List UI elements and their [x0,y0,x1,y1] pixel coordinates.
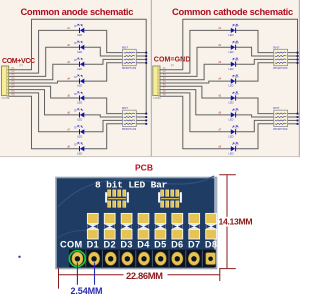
PCB board edge highlight right [214,178,217,268]
wire D2 to RN1 [84,47,122,56]
wire pin7 to D6 [160,90,231,115]
dimension 2.54MM right line [94,263,96,285]
svg-text:14.13MM: 14.13MM [219,217,253,227]
svg-text:LED: LED [77,151,82,155]
wire pin2 to D1 [9,30,80,73]
wire RN1 output 4 [288,62,298,64]
svg-text:COM: COM [60,239,83,249]
svg-text:D?: D? [74,92,78,96]
wire pin5 to D4 [160,81,231,83]
wire D8 to RN2 [84,124,122,149]
schematic area bottom border [0,156,300,158]
svg-text:LED: LED [229,101,234,105]
wire pin8 to D7 [160,93,231,132]
LED pad column D3 [121,213,132,239]
wire RN2 output 1 [288,113,298,115]
svg-text:D5: D5 [154,239,166,249]
LED pad column D1 [87,213,98,239]
LED D6 [231,109,238,118]
hole cell separator [185,250,187,266]
svg-text:D?: D? [235,75,239,79]
wire D3 to RN1 [235,59,273,64]
svg-text:2.54MM: 2.54MM [71,286,103,296]
svg-text:COM=GND: COM=GND [154,57,191,64]
svg-text:RN?: RN? [273,45,279,49]
svg-text:LED: LED [229,134,234,138]
PCB board body [56,178,217,269]
wire D8 to RN2 [235,124,273,149]
svg-text:8P4R?103: 8P4R?103 [273,66,288,70]
svg-text:LED: LED [229,50,234,54]
svg-text:LED: LED [229,33,234,37]
svg-text:P?: P? [20,64,24,68]
LED pad column D6 [172,213,183,239]
wire pin9 to D8 [9,96,80,149]
right edge border [298,0,300,156]
wire D6 to RN2 [84,115,122,117]
svg-text:D?: D? [235,92,239,96]
svg-text:D3: D3 [120,239,132,249]
LED D5 [78,92,85,101]
wire pin7 to D6 [9,90,80,115]
wire pin8 to D7 [9,93,80,132]
COM hole green marker circle [69,251,85,267]
LED D2 [231,41,238,50]
svg-text:D?: D? [74,41,78,45]
svg-text:D6: D6 [171,239,183,249]
resistor network RN2 [123,110,137,126]
through hole D7 [188,252,199,265]
svg-text:D2: D2 [103,239,115,249]
through hole D1 [88,252,99,265]
wire RN1 output 1 [288,52,298,54]
LED pad column D7 [189,213,200,239]
wire D6 to RN2 [235,115,273,117]
wire pin3 to D2 [160,47,231,76]
hole cell separator [118,250,120,266]
wire D4 to RN1 [84,63,122,81]
wire RN1 output 2 [288,55,298,57]
svg-text:CON9: CON9 [153,96,161,100]
svg-text:D?: D? [74,75,78,79]
wire RN2 output 3 [136,119,146,121]
svg-text:8P4R?103: 8P4R?103 [122,66,137,70]
wire D7 to RN2 [235,120,273,131]
wire D7 to RN2 [84,120,122,131]
LED D3 [78,58,85,67]
svg-text:22.86MM: 22.86MM [126,270,163,281]
wire RN2 output 3 [288,119,298,121]
through hole D6 [172,252,183,265]
LED pad column D5 [155,213,166,239]
wire D5 to RN2 [235,98,273,114]
wire D2 to RN1 [235,47,273,56]
svg-text:8P4R?103: 8P4R?103 [122,127,137,131]
svg-text:LED: LED [77,33,82,37]
wire pin5 to D4 [9,81,80,83]
dimension 22.86MM left tick [58,268,60,288]
wire pin9 to D8 [160,96,231,149]
hole cell separator [101,250,103,266]
IC footprint at x=117.0 [105,190,129,207]
dimension 22.86MM right tick [219,268,221,281]
svg-text:D?: D? [74,143,78,147]
svg-text:D?: D? [74,58,78,62]
LED D2 [78,41,85,50]
wire D1 to RN1 [84,30,122,52]
LED D3 [231,58,238,67]
LED pad column D2 [104,213,115,239]
svg-text:D8: D8 [205,239,217,249]
wire D1 to RN1 [235,30,273,52]
svg-text:D4: D4 [137,239,150,249]
svg-text:LED: LED [77,101,82,105]
through hole D2 [105,252,116,265]
svg-text:RN?: RN? [273,106,279,110]
wire pin6 to D5 [160,86,231,98]
LED D5 [231,92,238,101]
svg-text:D?: D? [235,24,239,28]
svg-text:LED: LED [229,151,234,155]
svg-text:LED: LED [229,84,234,88]
wire pin3 to D2 [9,47,80,76]
svg-text:RN?: RN? [122,45,128,49]
schematic area background [0,0,300,156]
svg-text:D?: D? [235,126,239,130]
LED D7 [78,125,85,134]
LED pad column D8 [206,213,217,239]
svg-text:8P4R?103: 8P4R?103 [273,127,288,131]
svg-text:P?: P? [171,64,175,68]
wire D4 to RN1 [235,63,273,81]
svg-text:D?: D? [235,58,239,62]
wire RN2 output 2 [288,116,298,118]
wire COM rail [160,19,298,113]
wire D5 to RN2 [84,98,122,114]
wire RN2 output 4 [288,123,298,125]
svg-text:LED: LED [77,118,82,122]
svg-text:LED: LED [77,67,82,71]
LED D1 [231,24,238,33]
LED pad column D4 [138,213,149,239]
wire D3 to RN1 [84,59,122,64]
svg-text:CON9: CON9 [2,96,10,100]
through hole D4 [138,252,149,265]
hole cell separator [151,250,153,266]
svg-text:LED: LED [77,50,82,54]
wire RN1 output 2 [136,55,146,57]
through hole D3 [122,252,133,265]
connector JB [153,66,160,97]
hole cell separator [201,250,203,266]
wire RN1 output 3 [288,58,298,60]
svg-text:D?: D? [235,143,239,147]
svg-text:PCB: PCB [135,163,153,173]
panel divider [150,0,152,156]
connector JA [2,66,9,97]
dimension 14.13MM vertical line [226,175,228,217]
wire COM rail [9,19,147,113]
hole cell separator [135,250,137,266]
resistor network RN1 [123,49,137,65]
svg-text:Common cathode schematic: Common cathode schematic [172,6,293,17]
IC footprint at x=170.0 [158,190,182,207]
svg-text:D?: D? [235,41,239,45]
wire pin4 to D3 [9,64,80,80]
LED D4 [78,75,85,84]
wire RN2 output 2 [136,116,146,118]
wire RN2 output 4 [136,123,146,125]
dimension 22.86MM line [59,274,124,276]
svg-text:Common anode schematic: Common anode schematic [20,6,133,17]
LED D1 [78,24,85,33]
through hole D8 (square pad) [206,253,216,265]
wire RN1 output 4 [136,62,146,64]
svg-text:LED: LED [229,67,234,71]
svg-text:D7: D7 [188,239,200,249]
resistor network RN1 [274,49,288,65]
LED D8 [231,142,238,151]
stray blue dot artifact [18,256,20,258]
wire RN1 output 1 [136,52,146,54]
dimension 14.13MM top tick [219,174,236,176]
svg-text:D?: D? [74,109,78,113]
svg-text:D?: D? [74,126,78,130]
PCB watermark swirl [58,176,214,207]
wire RN2 output 1 [136,113,146,115]
LED D7 [231,125,238,134]
dimension 14.13MM bottom tick [219,268,236,270]
svg-text:8 bit LED Bar: 8 bit LED Bar [95,179,168,190]
svg-text:D?: D? [235,109,239,113]
LED D8 [78,142,85,151]
dimension 2.54MM left line [76,263,78,285]
wire pin2 to D1 [160,30,231,73]
resistor network RN2 [274,110,288,126]
svg-text:RN?: RN? [122,106,128,110]
LED D4 [231,75,238,84]
svg-text:D1: D1 [87,239,99,249]
wire pin4 to D3 [160,64,231,80]
wire RN1 output 3 [136,58,146,60]
dark strip behind holes [69,250,216,268]
wire pin6 to D5 [9,86,80,98]
through hole COM [72,252,83,265]
svg-text:LED: LED [77,84,82,88]
svg-text:LED: LED [229,118,234,122]
hole cell separator [168,250,170,266]
hole cell separator [85,250,87,266]
svg-text:D?: D? [74,24,78,28]
svg-text:LED: LED [77,134,82,138]
LED D6 [78,109,85,118]
through hole D5 [155,252,166,265]
